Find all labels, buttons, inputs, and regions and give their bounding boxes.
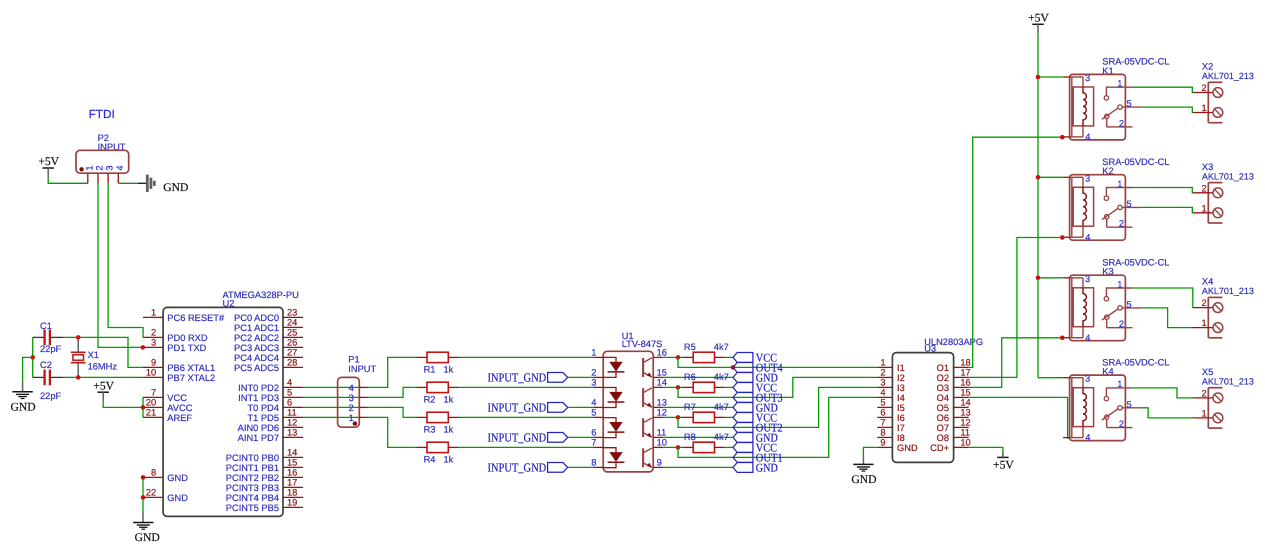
net label OUT3: [733, 390, 783, 404]
svg-text:4: 4: [115, 165, 125, 170]
svg-text:I5: I5: [897, 403, 905, 413]
svg-text:PCINT0 PB0: PCINT0 PB0: [226, 453, 279, 463]
svg-text:23: 23: [287, 308, 297, 318]
svg-text:I1: I1: [897, 363, 905, 373]
U2 pin 20 AVCC: [143, 398, 193, 413]
junction at R8 input: [676, 445, 681, 450]
svg-text:1: 1: [880, 358, 885, 368]
svg-text:8: 8: [591, 458, 596, 468]
svg-text:O1: O1: [937, 363, 949, 373]
junction at R7 input: [676, 415, 681, 420]
junction at U2 pin3: [141, 345, 146, 350]
junction at U2 pin8: [141, 475, 146, 480]
U2 pin 16 PCINT2 PB2: [226, 468, 303, 483]
wire P1 pin3 to R2: [368, 387, 418, 397]
U1 LED channel 3: [603, 418, 624, 438]
svg-text:3: 3: [1085, 73, 1090, 83]
wire R to U1 row 417.4: [459, 416, 594, 418]
wire INPUT_GND #4 to U1: [568, 466, 594, 468]
wire R6 to VCC flag: [725, 386, 733, 388]
svg-text:6: 6: [880, 408, 885, 418]
svg-text:1: 1: [151, 308, 156, 318]
net label GND #4: [733, 460, 778, 474]
U1 pin 15: [653, 368, 667, 378]
svg-text:14: 14: [960, 398, 970, 408]
wire R8 to VCC flag: [725, 446, 733, 448]
U3 pin 11 O8: [937, 428, 970, 443]
svg-text:+5V: +5V: [1028, 12, 1049, 25]
svg-text:I8: I8: [897, 433, 905, 443]
svg-text:28: 28: [287, 358, 297, 368]
svg-text:R3: R3: [424, 424, 436, 434]
wire U1 pin to R6: [663, 386, 683, 388]
resistor R2: [417, 382, 459, 404]
relay K1 SRA-05VDC-CL: [1063, 57, 1169, 142]
svg-text:AIN1 PD7: AIN1 PD7: [238, 433, 279, 443]
svg-text:10: 10: [960, 438, 970, 448]
svg-text:1k: 1k: [444, 394, 454, 404]
svg-text:5: 5: [1127, 299, 1132, 309]
svg-text:4k7: 4k7: [714, 402, 729, 412]
svg-text:16MHz: 16MHz: [88, 362, 118, 372]
svg-text:1: 1: [1202, 203, 1207, 213]
U2 pin 17 PCINT3 PB3: [226, 478, 303, 493]
U3 pin 15 O4: [937, 388, 971, 403]
capacitor C2: [33, 360, 63, 401]
wire U2 to P1 row 417.4: [303, 416, 359, 418]
svg-text:GND: GND: [167, 493, 188, 503]
U1 pin 13: [653, 398, 667, 408]
svg-text:2: 2: [95, 165, 105, 170]
U1 pin 16: [653, 348, 667, 358]
svg-text:17: 17: [960, 368, 970, 378]
wire K1 pin1 to X2 pin2: [1133, 87, 1194, 92]
svg-text:1: 1: [1202, 408, 1207, 418]
svg-text:4: 4: [1085, 232, 1090, 242]
resistor R5: [683, 342, 729, 363]
U3 pin 2 I2: [877, 368, 905, 383]
svg-text:PB6 XTAL1: PB6 XTAL1: [167, 363, 215, 373]
junction crystal bottom: [76, 375, 81, 380]
svg-text:3: 3: [880, 378, 885, 388]
U1 phototransistor channel 2: [643, 388, 652, 407]
svg-text:2: 2: [1119, 118, 1124, 128]
svg-text:PCINT3 PB3: PCINT3 PB3: [226, 483, 279, 493]
svg-text:PCINT5 PB5: PCINT5 PB5: [226, 503, 279, 513]
junction crystal top: [76, 335, 81, 340]
wire +5V to P2 pin1: [48, 178, 88, 184]
wire +5V to VCC/AVCC/AREF: [103, 402, 143, 408]
U3 pin 16 O3: [937, 378, 971, 393]
svg-text:2: 2: [151, 328, 156, 338]
+5V supply (AVCC): [93, 379, 114, 401]
svg-text:3: 3: [591, 378, 596, 388]
U2 pin 5 INT1 PD3: [238, 388, 303, 403]
svg-text:C2: C2: [40, 360, 52, 370]
U2 pin 23 PC0 ADC0: [234, 308, 303, 323]
net label VCC #2: [733, 380, 777, 394]
svg-text:2: 2: [1202, 83, 1207, 93]
svg-text:14: 14: [287, 448, 297, 458]
wire OUT4 net: [678, 357, 877, 367]
svg-text:INPUT_GND: INPUT_GND: [488, 431, 547, 445]
ground (below U2): [133, 523, 160, 545]
svg-text:4: 4: [1085, 132, 1090, 142]
svg-text:16: 16: [960, 378, 970, 388]
svg-text:GND: GND: [11, 400, 36, 413]
resistor R7: [683, 402, 729, 423]
wire O4 to K4 coil: [969, 397, 1070, 438]
U1 pin 1: [591, 348, 603, 358]
svg-text:AKL701_213: AKL701_213: [1202, 71, 1254, 81]
svg-text:7: 7: [151, 388, 156, 398]
net label VCC #3: [733, 410, 777, 424]
resistor R4: [417, 442, 459, 464]
U2 pin 13 AIN1 PD7: [238, 428, 303, 443]
U1 pin 2: [591, 368, 603, 378]
svg-text:INPUT_GND: INPUT_GND: [488, 371, 547, 385]
svg-text:OUT1: OUT1: [756, 450, 783, 464]
U3 pin 3 I3: [877, 378, 905, 393]
U1 pin 4: [591, 398, 603, 408]
svg-text:PD1 TXD: PD1 TXD: [167, 343, 206, 353]
svg-text:R4: R4: [424, 454, 436, 464]
svg-text:R6: R6: [684, 372, 696, 382]
wire U2 to P1 row 407.4: [303, 406, 359, 408]
svg-text:1: 1: [1202, 103, 1207, 113]
svg-text:15: 15: [287, 458, 297, 468]
wire K2 pin5 to X3 pin1: [1142, 207, 1193, 212]
svg-text:21: 21: [146, 408, 156, 418]
svg-text:2: 2: [1202, 298, 1207, 308]
connector P2 INPUT: [76, 133, 129, 183]
svg-text:2: 2: [1119, 219, 1124, 229]
U1 LED channel 2: [603, 388, 624, 408]
wire P1 pin2 to R3: [368, 407, 418, 417]
svg-text:INPUT_GND: INPUT_GND: [488, 401, 547, 415]
svg-text:25: 25: [287, 328, 297, 338]
wire INPUT_GND #3 to U1: [568, 436, 594, 438]
svg-text:PC5 ADC5: PC5 ADC5: [234, 363, 279, 373]
net label OUT4: [733, 360, 783, 374]
svg-text:4: 4: [287, 378, 292, 388]
U2 pin 22 GND: [143, 488, 188, 503]
svg-text:P1: P1: [348, 354, 359, 364]
svg-text:11: 11: [960, 428, 970, 438]
net label OUT1: [733, 450, 783, 464]
svg-text:5: 5: [1127, 99, 1132, 109]
U2 pin 21 AREF: [143, 408, 192, 423]
U1 pin 12: [653, 408, 667, 418]
svg-text:FTDI: FTDI: [89, 107, 115, 121]
svg-text:I3: I3: [897, 383, 905, 393]
U2 pin 11 T1 PD5: [247, 408, 303, 423]
U1 pin 7: [591, 438, 603, 448]
svg-text:GND: GND: [135, 531, 160, 544]
U3 pin 17 O2: [937, 368, 971, 383]
junction at U2 pin20: [141, 405, 146, 410]
U3 pin 5 I5: [877, 398, 905, 413]
svg-text:OUT4: OUT4: [756, 360, 783, 374]
connector P1 INPUT: [338, 354, 377, 427]
resistor R8: [683, 432, 729, 453]
svg-text:16: 16: [287, 468, 297, 478]
net label INPUT_GND #2: [488, 401, 568, 415]
svg-text:8: 8: [880, 428, 885, 438]
wire K3 pin5 to X4 pin1: [1142, 308, 1193, 328]
chassis GND symbol (gray): [147, 175, 188, 194]
capacitor C1: [33, 321, 63, 354]
wire U3 GND to ground: [863, 447, 877, 455]
U2 pin 3 PD1 TXD: [143, 338, 207, 353]
svg-text:PCINT2 PB2: PCINT2 PB2: [226, 473, 279, 483]
svg-text:4: 4: [1085, 433, 1090, 443]
U3 pin 9 GND: [877, 438, 918, 453]
terminal X2 AKL701_213: [1193, 62, 1254, 123]
wire U1 pin to GND flag #3: [663, 436, 733, 438]
wire U1 pin to GND flag #2: [663, 406, 733, 408]
svg-text:13: 13: [657, 398, 667, 408]
U3 pin 10 CD+: [930, 438, 971, 453]
U2 pin 8 GND: [143, 468, 188, 483]
svg-text:PD0 RXD: PD0 RXD: [167, 333, 208, 343]
svg-text:4: 4: [1085, 333, 1090, 343]
U3 pin 6 I6: [877, 408, 905, 423]
U3 pin 7 I7: [877, 418, 905, 433]
svg-text:I7: I7: [897, 423, 905, 433]
wire U1 pin to R8: [663, 446, 683, 448]
svg-text:22pF: 22pF: [40, 344, 62, 354]
wire U3 CD+ to +5V: [969, 447, 1003, 452]
svg-text:13: 13: [960, 408, 970, 418]
svg-text:X5: X5: [1202, 367, 1213, 377]
U1 LED channel 4: [603, 448, 624, 468]
svg-text:24: 24: [287, 318, 297, 328]
svg-text:5: 5: [880, 398, 885, 408]
svg-text:R5: R5: [684, 342, 696, 352]
svg-text:15: 15: [657, 368, 667, 378]
wire R5 to VCC flag: [725, 356, 733, 358]
svg-text:X4: X4: [1202, 277, 1213, 287]
svg-text:9: 9: [657, 458, 662, 468]
svg-text:1: 1: [1202, 318, 1207, 328]
svg-text:4: 4: [880, 388, 885, 398]
svg-text:PC6 RESET#: PC6 RESET#: [167, 313, 225, 323]
svg-text:X3: X3: [1202, 162, 1213, 172]
svg-text:CD+: CD+: [930, 443, 949, 453]
wire R7 to VCC flag: [725, 416, 733, 418]
svg-text:5: 5: [1127, 399, 1132, 409]
svg-text:4: 4: [349, 383, 354, 393]
+5V supply (relays): [1028, 12, 1049, 34]
wire to GND left: [23, 357, 33, 381]
svg-text:10: 10: [657, 438, 667, 448]
svg-text:1: 1: [591, 348, 596, 358]
svg-text:AVCC: AVCC: [167, 403, 192, 413]
svg-text:26: 26: [287, 338, 297, 348]
svg-text:I2: I2: [897, 373, 905, 383]
U2 pin 7 VCC: [143, 388, 187, 403]
svg-text:2: 2: [349, 403, 354, 413]
svg-text:INT0 PD2: INT0 PD2: [238, 383, 279, 393]
svg-text:PCINT1 PB1: PCINT1 PB1: [226, 463, 279, 473]
junction K3 pin4: [1060, 336, 1065, 341]
junction bus K3: [1036, 276, 1041, 281]
svg-text:O5: O5: [937, 403, 949, 413]
svg-text:R2: R2: [424, 394, 436, 404]
wire INPUT_GND #2 to U1: [568, 406, 594, 408]
U1 phototransistor channel 1: [643, 358, 652, 377]
+5V supply (P2): [38, 155, 59, 177]
net label INPUT_GND #1: [488, 371, 568, 385]
svg-text:1: 1: [84, 165, 94, 170]
svg-text:1: 1: [1117, 179, 1122, 189]
net label GND #2: [733, 400, 778, 414]
svg-text:+5V: +5V: [993, 459, 1014, 472]
svg-text:13: 13: [287, 428, 297, 438]
svg-text:PC1 ADC1: PC1 ADC1: [234, 323, 279, 333]
svg-text:18: 18: [287, 488, 297, 498]
svg-text:O4: O4: [937, 393, 949, 403]
svg-text:PCINT4 PB4: PCINT4 PB4: [226, 493, 279, 503]
svg-text:19: 19: [287, 498, 297, 508]
wire OUT1 net: [678, 397, 877, 457]
wire K3 pin1 to X4 pin2: [1133, 288, 1194, 308]
svg-text:1: 1: [1117, 379, 1122, 389]
net label GND #1: [733, 370, 778, 384]
svg-text:11: 11: [657, 428, 667, 438]
svg-text:6: 6: [591, 428, 596, 438]
U2 pin 26 PC3 ADC3: [234, 338, 303, 353]
relay K3 SRA-05VDC-CL: [1063, 257, 1169, 342]
junction OUT4 flag: [731, 365, 736, 370]
wire bus to K4 pin3: [1038, 377, 1063, 379]
svg-text:INT1 PD3: INT1 PD3: [238, 393, 279, 403]
svg-text:X1: X1: [88, 350, 99, 360]
wire U2 to P1 row 387.4: [303, 386, 359, 388]
ground (U3): [851, 464, 876, 486]
svg-text:18: 18: [960, 358, 970, 368]
svg-text:12: 12: [960, 418, 970, 428]
U3 pin 18 O1: [937, 358, 971, 373]
svg-text:12: 12: [287, 418, 297, 428]
resistor R1: [417, 352, 459, 374]
junction bus K1: [1036, 75, 1041, 80]
wire OUT2 net: [678, 387, 877, 427]
U2 pin 19 PCINT5 PB5: [226, 498, 303, 513]
svg-text:T1 PD5: T1 PD5: [247, 413, 279, 423]
svg-text:+5V: +5V: [93, 379, 114, 392]
svg-text:4k7: 4k7: [714, 432, 729, 442]
junction C1/C2/GND: [30, 355, 35, 360]
svg-text:3: 3: [1085, 374, 1090, 384]
U2 pin 18 PCINT4 PB4: [226, 488, 303, 503]
wire U2 to P1 row 397.4: [303, 396, 359, 398]
darlington driver U3 ULN2803APG body: [892, 337, 983, 462]
wire R to U1 row 387.4: [459, 386, 594, 388]
U2 pin 27 PC4 ADC4: [234, 348, 303, 363]
wire bus to K1 pin3: [1038, 76, 1063, 78]
svg-text:12: 12: [657, 408, 667, 418]
wire U1 pin to R5: [663, 356, 683, 358]
U1 phototransistor channel 4: [643, 448, 652, 467]
wire U1 pin to GND flag #4: [663, 466, 733, 468]
wire R to U1 row 447.4: [459, 446, 594, 448]
wire K4 pin5 to X5 pin1: [1142, 408, 1193, 418]
svg-text:7: 7: [591, 438, 596, 448]
U2 pin 12 AIN0 PD6: [238, 418, 303, 433]
relay K4 SRA-05VDC-CL: [1063, 357, 1169, 442]
net label OUT2: [733, 420, 783, 434]
svg-text:2: 2: [1202, 183, 1207, 193]
U1 pin 6: [591, 428, 603, 438]
ground (left): [11, 392, 36, 414]
svg-text:1: 1: [1117, 79, 1122, 89]
svg-text:O3: O3: [937, 383, 949, 393]
terminal X3 AKL701_213: [1193, 162, 1254, 223]
U3 pin 13 O6: [937, 408, 971, 423]
svg-text:3: 3: [151, 338, 156, 348]
U2 pin 14 PCINT0 PB0: [226, 448, 303, 463]
svg-text:2: 2: [591, 368, 596, 378]
svg-text:AKL701_213: AKL701_213: [1202, 376, 1254, 386]
wire O3 to K3 coil: [969, 338, 1063, 388]
svg-text:3: 3: [1085, 173, 1090, 183]
junction at U2 pin22: [141, 495, 146, 500]
svg-text:INPUT_GND: INPUT_GND: [488, 461, 547, 475]
U2 pin 25 PC2 ADC2: [234, 328, 303, 343]
svg-text:10: 10: [146, 368, 156, 378]
net label INPUT_GND #3: [488, 431, 568, 445]
svg-text:2: 2: [1202, 388, 1207, 398]
net label VCC #1: [733, 350, 777, 364]
net label GND #3: [733, 430, 778, 444]
svg-text:PC3 ADC3: PC3 ADC3: [234, 343, 279, 353]
relay K2 SRA-05VDC-CL: [1063, 157, 1169, 242]
svg-text:I4: I4: [897, 393, 905, 403]
svg-text:O8: O8: [937, 433, 949, 443]
wire U2 GND pins to ground: [142, 477, 144, 512]
U2 pin 6 T0 PD4: [247, 398, 303, 413]
wire XTAL2 net: [63, 376, 143, 378]
svg-text:PC4 ADC4: PC4 ADC4: [234, 353, 279, 363]
svg-text:3: 3: [1085, 274, 1090, 284]
svg-text:GND: GND: [163, 181, 188, 194]
junction at R6 input: [676, 385, 681, 390]
U2 pin 2 PD0 RXD: [143, 328, 208, 343]
svg-text:R7: R7: [684, 402, 696, 412]
svg-text:+5V: +5V: [38, 155, 59, 168]
U2 pin 28 PC5 ADC5: [234, 358, 303, 373]
svg-text:6: 6: [287, 398, 292, 408]
svg-text:5: 5: [1127, 199, 1132, 209]
svg-text:14: 14: [657, 378, 667, 388]
wire P1 pin1 to R4: [368, 417, 418, 447]
svg-text:5: 5: [287, 388, 292, 398]
wire INPUT_GND #1 to U1: [568, 376, 594, 378]
svg-text:22: 22: [146, 488, 156, 498]
U1 pin 14: [653, 378, 667, 388]
svg-text:AREF: AREF: [167, 413, 192, 423]
svg-text:PB7 XTAL2: PB7 XTAL2: [167, 373, 215, 383]
wire OUT3 net: [678, 377, 877, 397]
junction K2 pin4: [1060, 235, 1065, 240]
U1 pin 10: [653, 438, 667, 448]
U1 pin 11: [653, 428, 666, 438]
crystal X1: [71, 337, 118, 377]
svg-text:GND: GND: [167, 473, 188, 483]
wire bus to K3 pin3: [1038, 277, 1063, 279]
